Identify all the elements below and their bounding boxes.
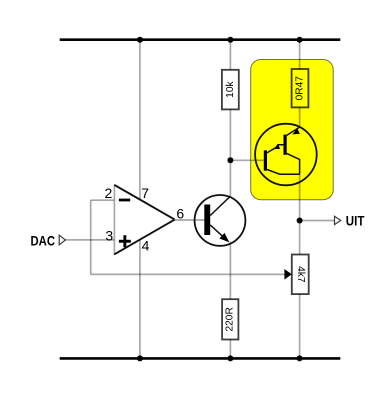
- resistor body 4k7: [292, 255, 309, 295]
- svg-text:2: 2: [105, 185, 113, 201]
- svg-text:UIT: UIT: [346, 213, 365, 229]
- svg-text:220R: 220R: [225, 307, 236, 331]
- junction top rail / pin7 wire: [137, 37, 143, 43]
- junction top rail / 0R47 wire: [297, 37, 303, 43]
- resistor R2 0R47: [292, 69, 309, 107]
- emitter lead with arrow: [210, 225, 225, 239]
- wire Q1 collector node to Q2 base: [230, 159, 263, 161]
- transistor Q2 (power PNP darlington in yellow box): [255, 124, 317, 186]
- base bar: [204, 205, 210, 236]
- wire node UIT to output port: [300, 220, 335, 222]
- wire V+ rail to op-amp pin 7: [139, 40, 141, 200]
- junction bottom rail / 220R wire: [227, 355, 233, 361]
- wire Q2 collector to R 4k7 top (node UIT): [299, 174, 301, 254]
- wire op-amp pin 4 to V- rail: [139, 240, 141, 359]
- svg-text:0R47: 0R47: [295, 76, 306, 101]
- svg-text:DAC: DAC: [31, 233, 56, 249]
- resistor R3 220R: [222, 299, 238, 339]
- UIT output port: [335, 213, 365, 229]
- wire op-amp pin 6 output to Q1 base: [175, 219, 205, 221]
- svg-text:4k7: 4k7: [295, 266, 306, 283]
- resistor R4 4k7 (preset): [292, 255, 309, 295]
- wire op-amp pin 2 stub: [91, 199, 115, 201]
- input port symbol: [59, 235, 65, 245]
- inner base bar (right): [284, 135, 287, 155]
- inverting input minus: [119, 199, 130, 202]
- wire R 4k7 bottom to V- rail: [299, 294, 301, 358]
- resistor R1 10k: [222, 70, 239, 110]
- wire R 0R47 bottom to Q2 emitter: [299, 107, 301, 127]
- wire V+ rail to R 10k top: [229, 40, 231, 70]
- wire R 220R bottom to V- rail: [229, 340, 231, 359]
- wire Q1 emitter to R 220R top: [229, 242, 231, 300]
- junction bottom rail / pin4 wire: [137, 355, 143, 361]
- svg-text:6: 6: [176, 206, 184, 222]
- collector lead (outer): [267, 170, 300, 175]
- emitter lead from top with arrow: [287, 127, 300, 135]
- junction Q1 collector / Q2 base: [227, 157, 233, 163]
- DAC input port: [31, 233, 66, 249]
- svg-text:3: 3: [105, 227, 113, 243]
- wire feedback horizontal to R 4k7 wiper: [91, 273, 286, 275]
- resistor body 10k: [222, 70, 239, 110]
- highlight box (yellow): [251, 60, 334, 200]
- top supply rail: [60, 38, 341, 41]
- outer base bar (left): [264, 150, 267, 170]
- junction bottom rail / 4k7 wire: [297, 355, 303, 361]
- wire R 10k bottom to Q1 collector: [229, 109, 231, 196]
- wiper arrow into R 4k7: [284, 269, 291, 280]
- wire DAC input to op-amp pin 3: [65, 239, 114, 241]
- wire V+ rail to R 0R47 top: [299, 40, 301, 69]
- op-amp body: [114, 185, 174, 254]
- collector lead (inner): [287, 153, 300, 174]
- non-inverting input plus: [119, 240, 131, 243]
- driver emitter link with arrow: [267, 145, 284, 153]
- output port symbol: [335, 216, 341, 224]
- transistor Q1 (NPN driver): [195, 195, 246, 246]
- svg-text:10k: 10k: [225, 80, 236, 97]
- svg-text:4: 4: [142, 237, 150, 253]
- junction node UIT: [297, 218, 303, 224]
- resistor body 220R: [222, 299, 238, 339]
- wire feedback vertical (pin 2 down): [90, 200, 92, 274]
- svg-text:7: 7: [141, 185, 149, 201]
- collector lead: [210, 196, 230, 215]
- op-amp U1: [105, 184, 185, 255]
- resistor body 0R47: [292, 69, 309, 107]
- bottom supply rail: [60, 357, 341, 360]
- junction top rail / 10k wire: [227, 37, 233, 43]
